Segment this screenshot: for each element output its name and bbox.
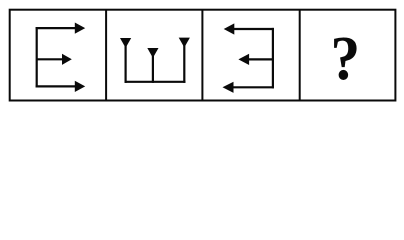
cell 1: top arm arrowhead [75,23,85,34]
divider line 2 [201,10,203,101]
cell 1: E-shape spine [36,27,38,88]
cell 1: middle arm line [37,58,64,60]
cell 3: top arm line [233,28,274,30]
outer frame [10,10,396,101]
cell 2: right prong triangle [179,38,190,48]
cell 1: top arm line [36,27,77,29]
cell 3: bottom arm arrowhead [223,82,234,93]
cell 3: mirrored-E spine [272,28,274,89]
cell 2: left prong triangle [120,38,131,48]
cell 1: bottom arm arrowhead [75,81,85,92]
cell 3: middle arm line [248,58,273,60]
cell 3: middle arm arrowhead [238,54,249,65]
svg-text:?: ? [330,24,360,93]
cell 1: bottom arm line [36,85,77,87]
cell 1: middle arm arrowhead [62,54,72,65]
cell 3: top arm arrowhead [224,23,235,34]
cell 2: Sha-shape bottom bar [125,81,186,83]
cell 2: middle prong triangle [147,48,158,58]
cell 2: left prong line [124,44,126,83]
cell 3: bottom arm line [232,86,274,88]
cell 2: right prong line [183,44,185,83]
cell 2: middle prong line [152,54,154,83]
divider line 3 [299,10,301,101]
divider line 1 [105,10,107,101]
